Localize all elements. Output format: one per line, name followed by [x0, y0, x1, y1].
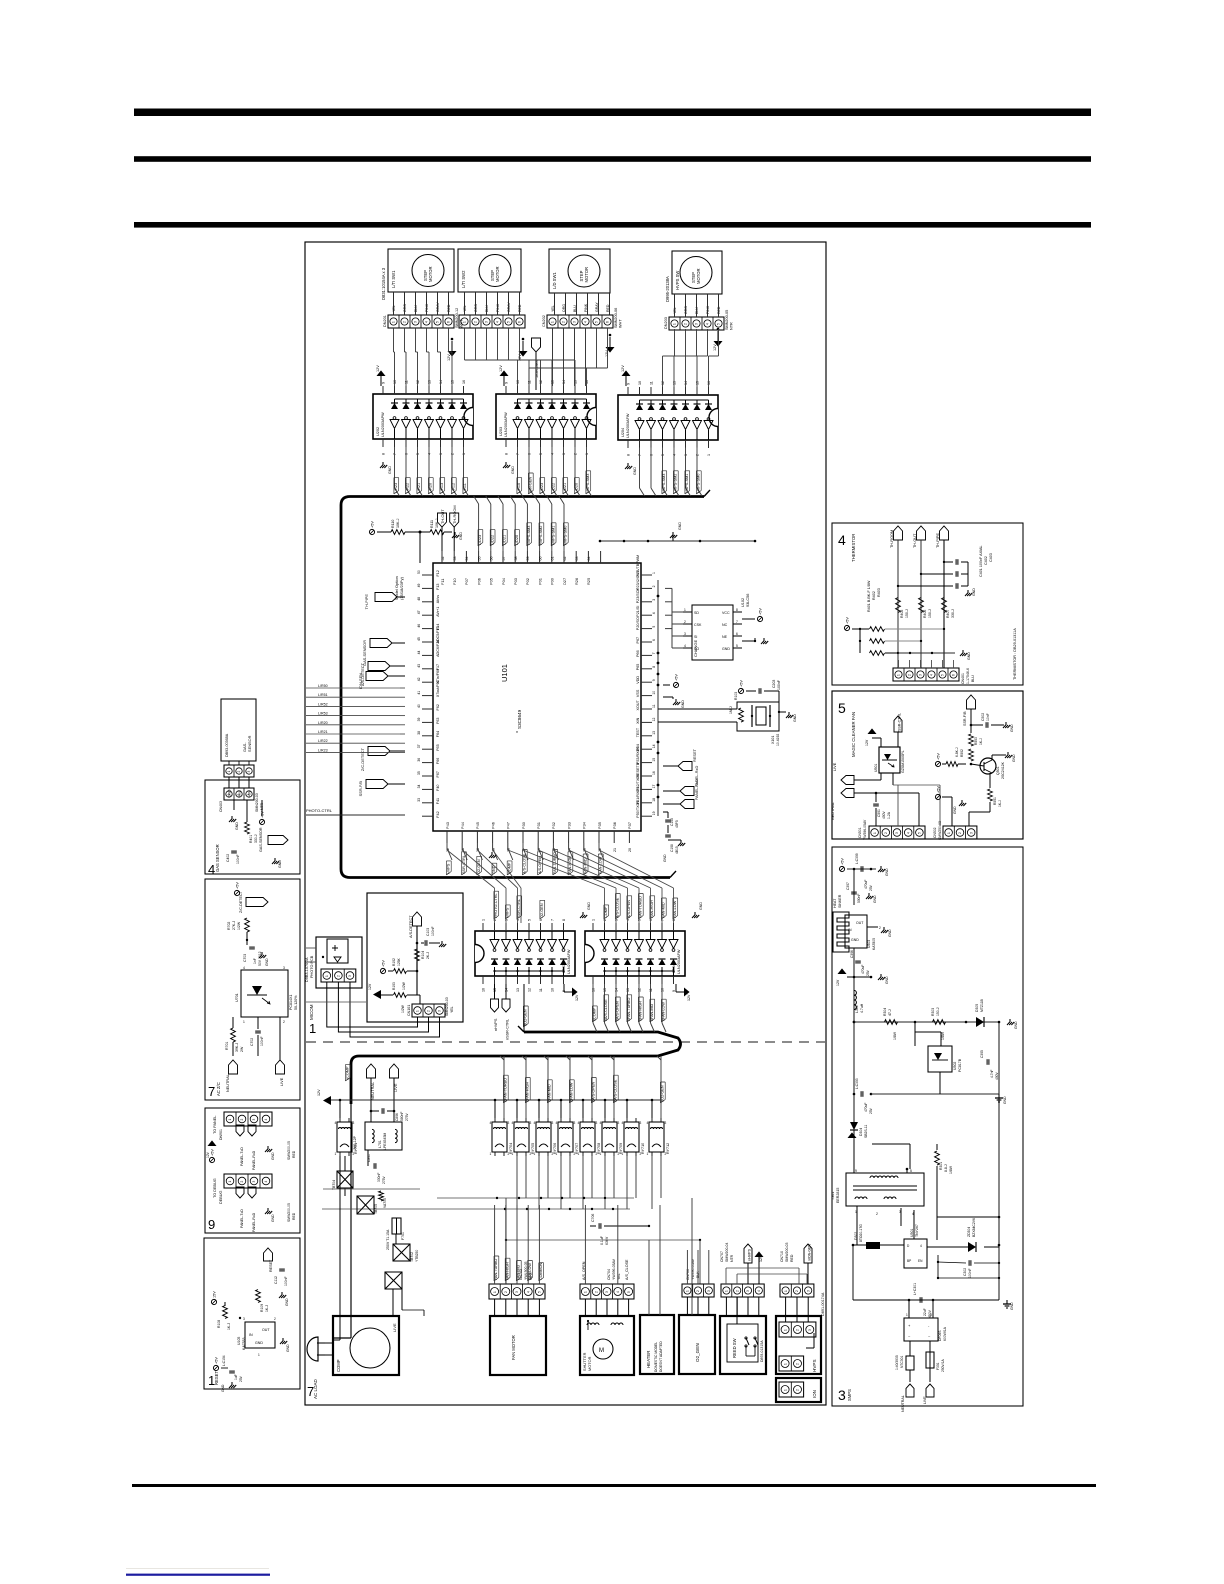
- svg-text:14: 14: [562, 380, 566, 384]
- svg-text:P32: P32: [551, 822, 556, 829]
- svg-text:4.7uH: 4.7uH: [860, 1003, 864, 1013]
- svg-text:45: 45: [417, 637, 421, 641]
- svg-text:AVr+1: AVr+1: [436, 607, 440, 617]
- svg-text:SMW200-03: SMW200-03: [785, 1242, 789, 1262]
- svg-text:nFAN-LOW: nFAN-LOW: [570, 1082, 574, 1102]
- svg-text:R102: R102: [392, 958, 396, 966]
- svg-text:4: 4: [622, 1121, 624, 1125]
- svg-text:3: 3: [695, 323, 699, 325]
- svg-text:1: 1: [783, 1363, 787, 1365]
- svg-text:1: 1: [258, 1353, 260, 1357]
- svg-text:C703: C703: [243, 954, 247, 962]
- svg-text:12V: 12V: [836, 979, 840, 986]
- svg-text:GAS SENSOR: GAS SENSOR: [215, 844, 220, 872]
- svg-text:9: 9: [652, 679, 656, 681]
- svg-text:1: 1: [585, 453, 589, 455]
- svg-text:8TO20-17G: 8TO20-17G: [859, 1224, 863, 1242]
- svg-text:3: 3: [970, 832, 974, 834]
- svg-text:6: 6: [539, 919, 543, 921]
- svg-text:RED: RED: [447, 304, 451, 312]
- svg-text:P31: P31: [536, 822, 541, 829]
- svg-text:1: 1: [416, 1010, 420, 1012]
- svg-text:2: 2: [876, 1212, 878, 1216]
- svg-text:8: 8: [627, 454, 631, 456]
- svg-text:150-J: 150-J: [905, 609, 909, 618]
- svg-text:2: 2: [562, 321, 566, 323]
- svg-text:14: 14: [439, 380, 443, 384]
- svg-text:35: 35: [417, 771, 421, 775]
- svg-text:ORG: ORG: [403, 304, 407, 312]
- svg-text:X101: X101: [771, 736, 775, 744]
- svg-text:10: 10: [393, 380, 397, 384]
- svg-text:64: 64: [587, 557, 591, 561]
- svg-text:TO PANEL: TO PANEL: [213, 1116, 217, 1134]
- svg-text:3: 3: [665, 1121, 667, 1125]
- svg-text:L/R21: L/R21: [318, 730, 328, 734]
- svg-text:A/S-DETECT: A/S-DETECT: [409, 915, 413, 938]
- svg-text:6: 6: [528, 453, 532, 455]
- svg-text:5: 5: [539, 453, 543, 455]
- svg-text:3: 3: [247, 794, 251, 796]
- svg-text:OUT: OUT: [856, 921, 864, 925]
- svg-text:GND: GND: [265, 958, 269, 966]
- svg-text:REED SW: REED SW: [732, 1338, 737, 1358]
- svg-text:19: 19: [652, 811, 656, 815]
- svg-text:+5V: +5V: [740, 680, 744, 687]
- svg-text:F12: F12: [436, 570, 440, 576]
- svg-text:1: 1: [392, 321, 396, 323]
- svg-text:C502: C502: [981, 713, 985, 721]
- svg-text:4.7nF: 4.7nF: [990, 1070, 994, 1078]
- svg-text:2: 2: [504, 1291, 508, 1293]
- svg-text:BLU: BLU: [485, 305, 489, 312]
- svg-text:C112: C112: [274, 1276, 278, 1284]
- svg-text:YEL: YEL: [463, 305, 467, 312]
- svg-text:1/8W: 1/8W: [949, 1165, 953, 1174]
- svg-text:ULN2003AFW: ULN2003AFW: [626, 413, 630, 438]
- svg-text:P67: P67: [636, 637, 640, 644]
- svg-text:15: 15: [451, 380, 455, 384]
- svg-text:TB705: TB705: [374, 1204, 378, 1214]
- svg-text:10K-J: 10K-J: [435, 518, 439, 528]
- svg-text:CN704: CN704: [607, 1269, 611, 1280]
- svg-text:/SSR-CTRL: /SSR-CTRL: [898, 713, 902, 732]
- svg-text:330nF: 330nF: [377, 1173, 381, 1182]
- svg-text:L/R22: L/R22: [318, 739, 328, 743]
- svg-text:4: 4: [551, 453, 555, 455]
- svg-text:*: *: [516, 731, 518, 737]
- svg-text:D305: D305: [975, 1004, 979, 1012]
- svg-text:GND: GND: [722, 647, 730, 651]
- svg-text:SMN200-03: SMN200-03: [445, 997, 449, 1016]
- svg-text:MICOM: MICOM: [309, 1004, 314, 1020]
- svg-text:YW396-05AV: YW396-05AV: [612, 1258, 616, 1280]
- svg-text:R103: R103: [734, 692, 738, 700]
- svg-text:CN710: CN710: [780, 1251, 784, 1262]
- svg-text:PC814X1: PC814X1: [289, 995, 293, 1010]
- svg-text:R407: R407: [946, 610, 950, 618]
- svg-text:P07: P07: [464, 578, 469, 585]
- svg-text:50: 50: [417, 570, 421, 574]
- svg-text:1: 1: [783, 1389, 787, 1391]
- svg-text:U701: U701: [235, 993, 239, 1002]
- svg-text:YEL: YEL: [450, 1006, 454, 1013]
- svg-text:Q501: Q501: [996, 766, 1000, 775]
- svg-text:5: 5: [528, 919, 532, 921]
- svg-text:P44: P44: [460, 821, 465, 829]
- svg-text:RY710: RY710: [641, 1143, 645, 1154]
- svg-text:F13: F13: [436, 584, 440, 590]
- svg-text:P30: P30: [521, 821, 526, 829]
- svg-text:F67: F67: [436, 771, 440, 777]
- svg-text:3: 3: [574, 1121, 576, 1125]
- svg-text:1: 1: [897, 674, 901, 676]
- svg-text:L301: L301: [855, 1005, 859, 1013]
- svg-text:13: 13: [516, 988, 520, 992]
- svg-text:6: 6: [606, 321, 610, 323]
- svg-text:22uF: 22uF: [923, 1308, 927, 1316]
- svg-text:15: 15: [652, 758, 656, 762]
- svg-text:GND: GND: [511, 466, 515, 474]
- svg-text:SINKER: SINKER: [838, 894, 842, 908]
- svg-text:1/8W: 1/8W: [941, 1031, 945, 1040]
- svg-text:HVPS-SM3: HVPS-SM3: [527, 526, 531, 545]
- svg-text:1: 1: [584, 1291, 588, 1293]
- svg-text:1K-J: 1K-J: [998, 800, 1002, 807]
- svg-text:3: 3: [508, 1121, 510, 1125]
- svg-text:U302: U302: [953, 1062, 957, 1070]
- svg-text:DN201: DN201: [383, 315, 387, 327]
- svg-text:11: 11: [652, 704, 656, 708]
- svg-text:4: 4: [647, 1121, 649, 1125]
- svg-text:44: 44: [417, 651, 421, 655]
- svg-text:P43: P43: [445, 822, 450, 829]
- svg-text:ULN2003AFW: ULN2003AFW: [567, 949, 571, 974]
- svg-text:4: 4: [673, 454, 677, 456]
- svg-text:AC LOAD: AC LOAD: [313, 1378, 318, 1399]
- svg-text:9: 9: [208, 1217, 215, 1232]
- svg-text:3: 3: [530, 1121, 532, 1125]
- svg-text:nFAN-TURBO: nFAN-TURBO: [627, 998, 631, 1021]
- svg-text:3: 3: [414, 321, 418, 323]
- svg-text:GND: GND: [967, 652, 971, 660]
- svg-text:12V: 12V: [621, 365, 625, 372]
- svg-text:R501: R501: [993, 797, 997, 805]
- svg-text:7: 7: [661, 919, 665, 921]
- svg-text:C307: C307: [846, 882, 850, 890]
- svg-text:2W: 2W: [240, 1046, 244, 1052]
- svg-text:1/2W: 1/2W: [401, 1004, 405, 1013]
- svg-text:2: 2: [237, 771, 241, 773]
- svg-text:D893-01315A: D893-01315A: [760, 1340, 764, 1362]
- svg-text:GND: GND: [271, 1152, 275, 1160]
- svg-text:C105: C105: [670, 818, 674, 826]
- svg-text:FAN-MID: FAN-MID: [583, 858, 587, 874]
- svg-text:NEUTRAL: NEUTRAL: [831, 802, 835, 820]
- svg-text:GZSM150SPL: GZSM150SPL: [901, 750, 905, 773]
- svg-text:1/2W: 1/2W: [237, 921, 241, 930]
- svg-text:330-J: 330-J: [951, 609, 955, 618]
- svg-text:XOUT: XOUT: [636, 700, 640, 711]
- svg-text:150-J: 150-J: [928, 609, 932, 618]
- svg-text:25V: 25V: [869, 884, 873, 891]
- svg-text:100nF: 100nF: [777, 680, 781, 690]
- svg-text:1: 1: [227, 794, 231, 796]
- svg-text:D831:10154A x 3: D831:10154A x 3: [381, 267, 386, 300]
- svg-text:50-120%: 50-120%: [294, 995, 298, 1010]
- svg-text:nHVPS: nHVPS: [748, 1248, 752, 1261]
- svg-text:+5V: +5V: [937, 786, 941, 793]
- svg-text:2: 2: [652, 585, 656, 587]
- svg-text:TNY267: TNY267: [915, 1224, 919, 1237]
- svg-text:3: 3: [485, 321, 489, 323]
- svg-text:6: 6: [518, 321, 522, 323]
- svg-text:F42: F42: [436, 811, 440, 817]
- svg-text:470uF: 470uF: [864, 1103, 868, 1112]
- svg-text:1M-J: 1M-J: [729, 706, 733, 714]
- svg-text:C306: C306: [850, 950, 854, 958]
- svg-text:58: 58: [514, 557, 518, 561]
- svg-text:P06: P06: [476, 578, 481, 585]
- svg-text:100nF: 100nF: [236, 854, 240, 864]
- svg-text:R110: R110: [391, 520, 395, 528]
- svg-text:L+C301: L+C301: [913, 1283, 917, 1295]
- svg-text:5: 5: [918, 832, 922, 834]
- svg-text:4: 4: [578, 1121, 580, 1125]
- svg-text:YEL: YEL: [673, 307, 677, 314]
- svg-text:1: 1: [783, 1329, 787, 1331]
- svg-text:SB2S-11: SB2S-11: [864, 1125, 868, 1138]
- svg-text:+5V: +5V: [675, 674, 679, 681]
- svg-text:SMN200-05: SMN200-05: [725, 310, 729, 330]
- svg-text:nFAN-HIGH: nFAN-HIGH: [526, 1081, 530, 1102]
- svg-text:12V: 12V: [206, 1151, 210, 1158]
- svg-text:nCOMP: nCOMP: [346, 1066, 350, 1080]
- svg-text:RESET: RESET: [692, 748, 697, 762]
- svg-text:11: 11: [405, 380, 409, 384]
- svg-text:3: 3: [283, 966, 285, 970]
- svg-text:R401: R401: [249, 835, 253, 843]
- svg-text:R26: R26: [574, 578, 579, 585]
- svg-text:PC817B: PC817B: [958, 1058, 962, 1072]
- svg-text:6.8K-J: 6.8K-J: [955, 747, 959, 757]
- svg-text:7: 7: [638, 454, 642, 456]
- svg-text:4: 4: [600, 1121, 602, 1125]
- svg-text:HVPS SW: HVPS SW: [675, 271, 680, 290]
- svg-text:L/R52: L/R52: [318, 702, 328, 706]
- svg-text:3: 3: [252, 1181, 256, 1183]
- svg-text:SI: SI: [694, 635, 697, 639]
- svg-text:SMW250-03: SMW250-03: [938, 821, 942, 840]
- svg-text:GND: GND: [587, 902, 591, 910]
- svg-text:9: 9: [627, 383, 631, 385]
- svg-text:3: 3: [562, 453, 566, 455]
- svg-text:14: 14: [652, 744, 656, 748]
- svg-text:P37: P37: [627, 822, 632, 829]
- svg-text:1:40/3935: 1:40/3935: [895, 1355, 899, 1370]
- svg-text:15V: 15V: [213, 1291, 217, 1298]
- svg-text:GND: GND: [888, 929, 892, 937]
- svg-text:L/R53: L/R53: [318, 712, 328, 716]
- svg-text:1: 1: [551, 321, 555, 323]
- svg-text:SMW200-05: SMW200-05: [287, 1203, 291, 1222]
- svg-text:2: 2: [603, 919, 607, 921]
- svg-text:12: 12: [661, 381, 665, 385]
- svg-text:C806: C806: [395, 1113, 399, 1121]
- svg-text:4: 4: [428, 453, 432, 455]
- svg-text:TB702: TB702: [410, 1252, 414, 1262]
- svg-text:RED: RED: [717, 306, 721, 314]
- svg-text:L:C303: L:C303: [855, 1078, 859, 1089]
- svg-text:55: 55: [477, 557, 481, 561]
- svg-text:33: 33: [417, 798, 421, 802]
- svg-text:CN101: CN101: [407, 1005, 411, 1016]
- svg-text:39K-J: 39K-J: [235, 1043, 239, 1052]
- svg-text:12V: 12V: [605, 350, 609, 357]
- svg-text:11: 11: [528, 380, 532, 384]
- svg-text:5: 5: [436, 321, 440, 323]
- svg-text:2: 2: [735, 1290, 739, 1292]
- svg-text:RY712: RY712: [666, 1143, 670, 1154]
- svg-text:ADC6/F16: ADC6/F16: [436, 640, 440, 657]
- svg-text:GND: GND: [699, 902, 703, 910]
- svg-text:BLU: BLU: [414, 305, 418, 312]
- svg-text:2: 2: [795, 1290, 799, 1292]
- svg-text:6: 6: [447, 321, 451, 323]
- svg-text:9: 9: [382, 382, 386, 384]
- svg-text:R503: R503: [974, 737, 978, 745]
- svg-text:U105: U105: [237, 1337, 241, 1345]
- svg-text:NC: NC: [722, 623, 728, 627]
- svg-text:TEST: TEST: [636, 727, 640, 737]
- svg-text:L/R23: L/R23: [318, 748, 328, 752]
- svg-text:250V T1.15A: 250V T1.15A: [386, 1229, 390, 1250]
- svg-text:7: 7: [551, 919, 555, 921]
- svg-text:4: 4: [684, 644, 686, 648]
- svg-text:1: 1: [493, 1291, 497, 1293]
- svg-text:12V: 12V: [575, 994, 579, 1001]
- svg-text:3: 3: [807, 1290, 811, 1292]
- svg-text:2: 2: [594, 1291, 598, 1293]
- svg-text:4: 4: [490, 1121, 492, 1125]
- svg-text:nA/S-OPEN: nA/S-OPEN: [592, 1081, 596, 1102]
- svg-text:F64: F64: [436, 731, 440, 737]
- svg-text:4: 4: [652, 612, 656, 614]
- svg-text:DB93-00368A: DB93-00368A: [225, 733, 229, 757]
- svg-text:BLU: BLU: [695, 307, 699, 314]
- svg-text:R111: R111: [430, 520, 434, 528]
- svg-text:1: 1: [600, 1152, 602, 1156]
- svg-text:12V: 12V: [499, 365, 503, 372]
- svg-text:5: 5: [736, 644, 738, 648]
- svg-text:15: 15: [493, 988, 497, 992]
- svg-text:SMN200-12: SMN200-12: [455, 308, 459, 328]
- svg-text:+5V: +5V: [236, 882, 240, 889]
- svg-text:U101: U101: [500, 664, 509, 682]
- svg-text:PINK: PINK: [425, 303, 429, 312]
- svg-text:HVPS-SM0: HVPS-SM0: [697, 474, 701, 493]
- svg-text:L/TI SW1: L/TI SW1: [391, 270, 396, 288]
- svg-text:GRAY: GRAY: [436, 302, 440, 312]
- svg-text:6: 6: [405, 453, 409, 455]
- svg-text:CN502: CN502: [933, 827, 937, 838]
- svg-text:BLU: BLU: [971, 675, 975, 682]
- svg-text:GND: GND: [286, 1344, 290, 1352]
- svg-text:F301: F301: [936, 1362, 940, 1370]
- svg-text:RED: RED: [292, 1212, 296, 1220]
- svg-text:3: 3: [684, 632, 686, 636]
- svg-text:nION-GEN: nION-GEN: [808, 1244, 812, 1261]
- svg-text:C402: C402: [226, 854, 230, 862]
- svg-text:8: 8: [382, 453, 386, 455]
- svg-text:COMP: COMP: [336, 1359, 341, 1372]
- svg-text:3: 3: [605, 1291, 609, 1293]
- svg-text:P20/SO: P20/SO: [636, 617, 640, 630]
- svg-text:SENSOR: SENSOR: [247, 735, 252, 752]
- svg-text:3: 3: [684, 454, 688, 456]
- svg-text:MTZ11B: MTZ11B: [980, 999, 984, 1012]
- svg-text:2: 2: [240, 1181, 244, 1183]
- svg-text:U102: U102: [741, 598, 745, 607]
- svg-text:BP: BP: [907, 1259, 911, 1263]
- svg-text:ULN2003AFW: ULN2003AFW: [677, 949, 681, 974]
- svg-text:NTC301: NTC301: [900, 1356, 904, 1368]
- svg-text:16: 16: [462, 380, 466, 384]
- svg-text:OUT: OUT: [262, 1328, 270, 1332]
- svg-text:nFAN-MID: nFAN-MID: [548, 1084, 552, 1102]
- svg-text:NTR: NTR: [730, 322, 734, 330]
- svg-text:56: 56: [490, 557, 494, 561]
- svg-text:3: 3: [707, 1290, 711, 1292]
- svg-text:R405: R405: [900, 610, 904, 618]
- svg-text:JW1-12P: JW1-12P: [353, 1135, 357, 1150]
- svg-text:nO2-GEN: nO2-GEN: [661, 1085, 665, 1102]
- svg-text:MOTOR: MOTOR: [428, 266, 433, 282]
- svg-text:L:C309: L:C309: [855, 853, 859, 864]
- svg-text:HVPS-SM1: HVPS-SM1: [685, 474, 689, 493]
- svg-text:13: 13: [626, 988, 630, 992]
- svg-text:+5V: +5V: [759, 608, 763, 615]
- svg-text:F65: F65: [436, 744, 440, 750]
- svg-text:25V: 25V: [239, 1375, 243, 1382]
- svg-text:36: 36: [417, 758, 421, 762]
- svg-text:16: 16: [652, 771, 656, 775]
- svg-text:O2_GEN: O2_GEN: [695, 1343, 700, 1362]
- svg-text:2: 2: [796, 1363, 800, 1365]
- svg-text:NTR: NTR: [730, 1254, 734, 1262]
- svg-text:P35: P35: [597, 822, 602, 829]
- svg-text:5: 5: [652, 626, 656, 628]
- svg-text:100nF: 100nF: [968, 1268, 972, 1278]
- svg-text:R109: R109: [260, 1304, 264, 1312]
- svg-text:C501: C501: [877, 809, 881, 817]
- svg-text:S3C8649: S3C8649: [517, 709, 522, 729]
- svg-text:ION-GEN: ION-GEN: [529, 476, 533, 493]
- svg-text:59: 59: [526, 557, 530, 561]
- svg-text:125K: 125K: [397, 957, 401, 966]
- svg-text:60: 60: [538, 557, 542, 561]
- svg-text:P01: P01: [537, 578, 542, 585]
- svg-text:2: 2: [696, 454, 700, 456]
- svg-text:12: 12: [416, 380, 420, 384]
- svg-text:2: 2: [879, 926, 881, 930]
- svg-text:R402: R402: [872, 591, 876, 600]
- svg-text:450V: 450V: [882, 810, 886, 819]
- svg-text:2: 2: [696, 1290, 700, 1292]
- svg-text:16: 16: [482, 988, 486, 992]
- svg-text:1: 1: [243, 1020, 245, 1024]
- svg-text:1: 1: [684, 608, 686, 612]
